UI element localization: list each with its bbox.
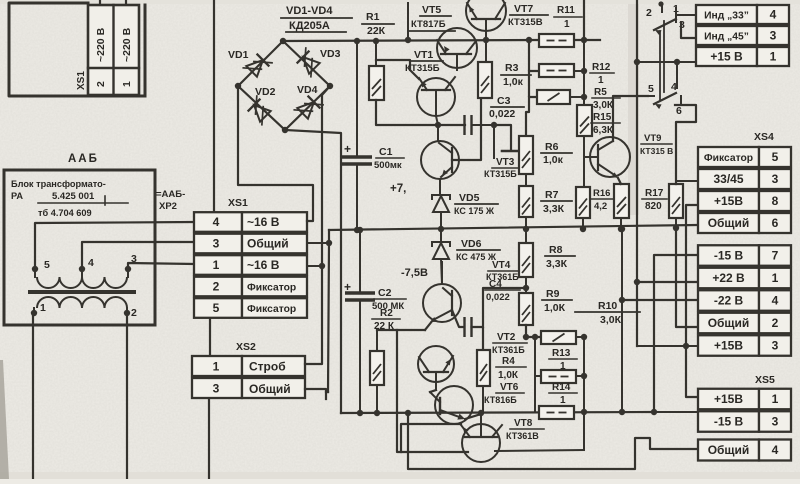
resistor R11 (in rail) bbox=[539, 34, 574, 47]
svg-text:3: 3 bbox=[770, 29, 777, 43]
junction v686 bbox=[683, 343, 689, 349]
svg-text:XS1: XS1 bbox=[228, 197, 248, 209]
wire R15 bottom to VT9 base and R16 bbox=[583, 136, 585, 187]
XS1 row 3 Общий bbox=[194, 234, 242, 254]
pin 4 bbox=[81, 269, 83, 277]
svg-text:VD5: VD5 bbox=[459, 192, 480, 204]
wire ladder left vertical bbox=[534, 337, 536, 412]
svg-text:4,2: 4,2 bbox=[594, 201, 607, 212]
zener VD5 KS175Zh bbox=[432, 195, 450, 200]
junction VT5 emitter bbox=[483, 37, 489, 43]
resistor R14b in rail bbox=[539, 406, 574, 419]
svg-text:VD6: VD6 bbox=[461, 238, 482, 250]
svg-text:Общий: Общий bbox=[247, 237, 289, 251]
svg-text:-15 В: -15 В bbox=[714, 415, 744, 429]
resistor R17b (right of R16) bbox=[614, 184, 629, 218]
pin 3 bbox=[127, 269, 129, 277]
svg-text:=ААБ-: =ААБ- bbox=[156, 189, 185, 200]
wire left branch to R5h bbox=[529, 71, 537, 97]
svg-text:R10: R10 bbox=[598, 300, 617, 312]
minus rail -7.5V bbox=[341, 412, 654, 413]
svg-text:R3: R3 bbox=[505, 62, 519, 74]
zener VD6 KS475Zh bbox=[440, 229, 442, 241]
svg-text:3,0К: 3,0К bbox=[600, 314, 622, 326]
junction R4/VT6/VT8 node bbox=[478, 410, 484, 416]
mains input box bbox=[9, 3, 145, 96]
svg-text:тб 4.704 609: тб 4.704 609 bbox=[38, 208, 92, 218]
wire pin1 down bbox=[32, 313, 34, 479]
svg-text:4: 4 bbox=[772, 443, 779, 457]
wire R5h left down to R6 bbox=[526, 97, 529, 136]
row +15 В 1 bbox=[696, 47, 757, 66]
svg-text:R17: R17 bbox=[645, 188, 664, 199]
svg-text:1,0К: 1,0К bbox=[498, 370, 519, 381]
svg-text:XS2: XS2 bbox=[236, 341, 256, 353]
svg-text:22К: 22К bbox=[367, 25, 386, 37]
svg-text:4: 4 bbox=[88, 257, 94, 269]
resistor R7 bbox=[519, 186, 533, 217]
svg-text:+15В: +15В bbox=[714, 194, 743, 208]
wire left branch R12/R5 bbox=[529, 40, 539, 71]
resistor R9 bbox=[519, 293, 533, 325]
wire +15V vertical bbox=[636, 0, 638, 346]
wire ground vertical down to XS2 bbox=[328, 243, 329, 392]
wire R17b bottom bbox=[620, 218, 622, 229]
row +15В 3 bbox=[698, 335, 759, 356]
wire R8 to R9 bbox=[525, 277, 527, 293]
svg-text:Инд „33”: Инд „33” bbox=[704, 11, 749, 22]
wire R17 bottom to common rail bbox=[675, 218, 677, 228]
svg-text:+15В: +15В bbox=[714, 392, 743, 406]
svg-text:КТ315В: КТ315В bbox=[508, 17, 543, 28]
transistor VT9 bbox=[590, 137, 630, 177]
svg-text:1: 1 bbox=[770, 50, 777, 64]
diode VD1 bbox=[242, 50, 272, 80]
svg-text:3,0К: 3,0К bbox=[593, 100, 614, 111]
svg-text:VD1: VD1 bbox=[228, 49, 249, 61]
svg-text:R4: R4 bbox=[502, 356, 515, 367]
transistor VT6 bbox=[435, 386, 473, 424]
svg-text:Фиксатор: Фиксатор bbox=[247, 304, 296, 315]
transformer T1 primary winding bbox=[37, 277, 60, 288]
row +15В 8 bbox=[698, 191, 759, 211]
svg-text:1: 1 bbox=[560, 395, 566, 406]
svg-text:2: 2 bbox=[213, 280, 220, 294]
svg-text:КС 475 Ж: КС 475 Ж bbox=[456, 252, 497, 262]
svg-text:VD4: VD4 bbox=[297, 84, 318, 96]
svg-text:VT8: VT8 bbox=[514, 418, 533, 429]
XS2 row 1 Strob bbox=[192, 356, 242, 376]
capacitor C1 500mk bbox=[356, 41, 358, 157]
contact link wires bbox=[659, 31, 661, 100]
wire common to XS4 Obschij2 row bbox=[676, 228, 698, 327]
svg-text:1: 1 bbox=[598, 75, 604, 86]
wire contact6 to R17 bbox=[675, 105, 696, 184]
svg-text:1,0к: 1,0к bbox=[543, 154, 564, 166]
resistor R4 bbox=[477, 350, 490, 386]
svg-text:4: 4 bbox=[772, 294, 779, 308]
svg-text:VD1-VD4: VD1-VD4 bbox=[286, 5, 333, 17]
svg-text:1: 1 bbox=[40, 302, 46, 314]
svg-text:8: 8 bbox=[772, 194, 779, 208]
svg-text:2: 2 bbox=[131, 307, 137, 319]
svg-text:820: 820 bbox=[645, 201, 662, 212]
wire R9 bottom to R13 bbox=[526, 325, 541, 337]
wire R17 to 33/45 row bbox=[676, 180, 698, 182]
wire XS2 ground joins ground bus bbox=[305, 389, 326, 399]
pin 1 bbox=[33, 308, 35, 313]
pin 2 bbox=[126, 308, 128, 313]
svg-text:РА: РА bbox=[11, 191, 23, 201]
wire -22V row bbox=[622, 299, 698, 301]
wire R14 right bbox=[576, 375, 584, 377]
junction R1 top bbox=[373, 38, 379, 44]
svg-text:~16 В: ~16 В bbox=[247, 258, 280, 272]
svg-text:ХР2: ХР2 bbox=[159, 201, 177, 212]
svg-text:1: 1 bbox=[213, 360, 220, 374]
svg-text:R14: R14 bbox=[552, 382, 571, 393]
junction v584 bottom bbox=[581, 409, 587, 415]
wire C4 node up to R8/R9 junction bbox=[483, 288, 526, 327]
junction C2 top bbox=[357, 227, 363, 233]
capacitor C4 body bbox=[463, 317, 465, 337]
wire R6 to R7 bbox=[525, 174, 527, 186]
svg-text:R13: R13 bbox=[552, 348, 571, 359]
transistor VT4 bbox=[423, 284, 461, 322]
wire +7V rail bbox=[283, 40, 539, 41]
svg-text:R7: R7 bbox=[545, 189, 559, 201]
row Фиксатор 5 bbox=[698, 147, 759, 167]
svg-text:R16: R16 bbox=[593, 188, 610, 199]
XS1 row 5 Фиксатор bbox=[194, 298, 242, 318]
junction C2 bottom bbox=[357, 410, 363, 416]
capacitor C3 0.022 bbox=[463, 115, 465, 135]
bridge frame bbox=[238, 41, 330, 130]
svg-text:Строб: Строб bbox=[249, 360, 286, 374]
svg-text:VD2: VD2 bbox=[255, 86, 276, 98]
svg-text:5: 5 bbox=[648, 83, 654, 95]
svg-text:1,0к: 1,0к bbox=[503, 76, 524, 88]
transistor VT (driver) near +7 bbox=[421, 141, 459, 179]
node bridge left bbox=[235, 83, 241, 89]
svg-text:КД205А: КД205А bbox=[289, 20, 330, 32]
wire R1 bottom to coupling line bbox=[376, 100, 465, 125]
svg-text:2: 2 bbox=[646, 7, 652, 19]
wire R2 top to VT4 emitter bbox=[377, 329, 425, 331]
svg-text:3: 3 bbox=[772, 339, 779, 353]
junction C1 bottom bbox=[354, 227, 360, 233]
diode VD4 bbox=[293, 92, 323, 122]
svg-text:Блок трансформато-: Блок трансформато- bbox=[11, 179, 106, 189]
svg-text:4: 4 bbox=[770, 8, 777, 22]
transistor VT1 bbox=[417, 78, 455, 116]
wire +15V8 row to v686 bbox=[686, 205, 698, 397]
resistor R12 bbox=[539, 64, 574, 77]
row 33/45 3 bbox=[698, 169, 759, 189]
resistor R15 bbox=[577, 105, 592, 136]
svg-text:3: 3 bbox=[772, 415, 779, 429]
svg-text:С2: С2 bbox=[378, 287, 392, 299]
svg-text:+22 В: +22 В bbox=[712, 271, 745, 285]
svg-text:3: 3 bbox=[772, 172, 779, 186]
wire +15V to Ind row bbox=[637, 61, 696, 63]
transformer T1 secondary winding bbox=[37, 297, 60, 308]
wire contact5 to VT9 bbox=[648, 95, 654, 97]
junction R5 right bbox=[581, 94, 587, 100]
resistor R6 bbox=[519, 136, 533, 174]
svg-text:КТ315Б: КТ315Б bbox=[484, 169, 517, 179]
row Общий 4 bbox=[698, 440, 759, 461]
svg-text:XS4: XS4 bbox=[754, 131, 774, 143]
resistor R3 bbox=[485, 40, 487, 62]
diode VD2 bbox=[244, 95, 274, 125]
row Общий 2 bbox=[698, 313, 759, 334]
svg-text:2: 2 bbox=[772, 316, 779, 330]
junction rail to -15V bbox=[651, 409, 657, 415]
wire mains N bbox=[125, 0, 127, 6]
svg-text:+: + bbox=[344, 142, 351, 156]
wire pin5 to XS1-4 bbox=[35, 222, 194, 269]
transistor VT7 bbox=[437, 28, 477, 68]
junction v622 bottom bbox=[619, 409, 625, 415]
svg-text:КТ315Б: КТ315Б bbox=[405, 63, 440, 74]
XS1 row 1 ~16 В bbox=[194, 255, 242, 275]
wire v397 down bbox=[397, 330, 468, 452]
wire pin4 to XS1-3 bbox=[82, 242, 194, 269]
wire XS2-3 ground down bbox=[208, 399, 210, 479]
wire R1 tap to VT1 base bbox=[376, 60, 419, 79]
row -15 В 3 bbox=[698, 411, 759, 432]
svg-text:5: 5 bbox=[772, 150, 779, 164]
svg-text:1: 1 bbox=[772, 271, 779, 285]
svg-text:1: 1 bbox=[564, 19, 570, 30]
junction v408 bbox=[405, 410, 411, 416]
svg-text:~220 В: ~220 В bbox=[95, 27, 107, 62]
svg-text:VT7: VT7 bbox=[514, 3, 533, 15]
node bridge right bbox=[327, 83, 333, 89]
resistor R17 bbox=[669, 184, 683, 218]
svg-text:Фиксатор: Фиксатор bbox=[704, 153, 753, 164]
svg-text:4: 4 bbox=[213, 215, 220, 229]
wire mains L bbox=[99, 0, 101, 6]
wire R7 bottom to common rail bbox=[525, 217, 527, 229]
svg-text:R9: R9 bbox=[546, 288, 560, 300]
svg-text:0,022: 0,022 bbox=[489, 108, 515, 120]
svg-text:VT1: VT1 bbox=[414, 49, 433, 61]
junction VD5 common bbox=[438, 226, 444, 232]
capacitor C2 500mk bbox=[359, 230, 361, 293]
row -22 В 4 bbox=[698, 290, 759, 311]
XS1 row 4 ~16 В bbox=[194, 212, 242, 232]
svg-text:КТ315 В: КТ315 В bbox=[640, 146, 673, 156]
row Инд „33” 4 bbox=[696, 5, 757, 24]
svg-text:0,022: 0,022 bbox=[486, 292, 510, 303]
svg-text:3,3К: 3,3К bbox=[543, 203, 565, 215]
svg-text:1,0К: 1,0К bbox=[544, 302, 566, 314]
wire R11 right to v584 bbox=[574, 39, 584, 41]
wire bridge right node to XS1 row1 and Strob bbox=[305, 86, 330, 364]
svg-text:VT4: VT4 bbox=[492, 260, 511, 271]
junction C3 right bbox=[491, 122, 497, 128]
scan background shading bbox=[628, 0, 639, 215]
wire pin2 down bbox=[126, 313, 128, 479]
svg-text:R6: R6 bbox=[545, 141, 559, 153]
svg-text:КТ816Б: КТ816Б bbox=[484, 395, 517, 405]
svg-text:Фиксатор: Фиксатор bbox=[247, 283, 296, 294]
svg-text:R15: R15 bbox=[593, 112, 612, 123]
svg-text:VD3: VD3 bbox=[320, 48, 341, 60]
svg-text:R8: R8 bbox=[549, 244, 563, 256]
junction R12 right bbox=[581, 68, 587, 74]
resistor R14 bbox=[541, 370, 576, 383]
wire v622 bbox=[621, 229, 623, 412]
svg-text:-7,5В: -7,5В bbox=[401, 267, 428, 279]
wire bridge bottom to minus rail bbox=[285, 130, 341, 413]
svg-text:6,3К: 6,3К bbox=[593, 125, 614, 136]
svg-text:1: 1 bbox=[213, 258, 220, 272]
svg-text:Общий: Общий bbox=[249, 382, 291, 396]
svg-text:33/45: 33/45 bbox=[713, 172, 743, 186]
transistor VT8 bbox=[462, 424, 500, 462]
svg-text:R1: R1 bbox=[366, 11, 380, 23]
connector XS1 (mains) table bbox=[88, 5, 139, 95]
svg-text:3: 3 bbox=[213, 382, 220, 396]
wire +15V3 row bbox=[637, 345, 698, 347]
transistor VT5 bbox=[466, 0, 506, 31]
wire long vertical from top edge to XS1 bbox=[213, 0, 215, 211]
wire lower return bbox=[408, 413, 698, 469]
svg-text:1: 1 bbox=[121, 81, 133, 87]
svg-text:КТ361В: КТ361В bbox=[506, 431, 539, 441]
wire R16 bottom bbox=[582, 218, 584, 229]
svg-text:2: 2 bbox=[95, 81, 107, 87]
resistor R1 bbox=[375, 41, 377, 66]
diode VD3 bbox=[293, 47, 323, 77]
wire -15V7 row bbox=[654, 255, 698, 412]
svg-text:1: 1 bbox=[772, 392, 779, 406]
svg-text:6: 6 bbox=[772, 216, 779, 230]
row -15 В 7 bbox=[698, 245, 759, 266]
svg-text:Общий: Общий bbox=[708, 316, 750, 330]
svg-text:VT5: VT5 bbox=[422, 4, 441, 16]
junction R2 bottom bbox=[374, 410, 380, 416]
wire v584 lower bbox=[583, 337, 585, 412]
row Инд „45” 3 bbox=[696, 26, 757, 45]
wire XS1 to XS2 bbox=[209, 319, 211, 355]
common rail (obschij) bbox=[329, 225, 696, 230]
transformer block box bbox=[4, 170, 155, 325]
svg-text:VT9: VT9 bbox=[644, 133, 661, 144]
svg-text:~220 В: ~220 В bbox=[121, 27, 133, 62]
resistor R8 bbox=[525, 229, 527, 243]
svg-text:+7,: +7, bbox=[390, 183, 406, 195]
svg-text:R2: R2 bbox=[380, 308, 393, 319]
svg-text:XS1: XS1 bbox=[76, 71, 87, 90]
svg-text:VT3: VT3 bbox=[496, 157, 515, 168]
junction row1 tap bbox=[319, 263, 325, 269]
svg-text:-15 В: -15 В bbox=[714, 249, 744, 263]
wire bridge left node to XS1 row4 bbox=[238, 86, 313, 221]
svg-text:3,3К: 3,3К bbox=[546, 258, 568, 270]
junction C1 top bbox=[354, 38, 360, 44]
svg-text:С3: С3 bbox=[497, 95, 511, 107]
svg-text:С1: С1 bbox=[379, 146, 393, 158]
resistor R5 (horizontal) bbox=[537, 90, 570, 104]
XS1 row 2 Фиксатор bbox=[194, 277, 242, 297]
svg-text:+15 В: +15 В bbox=[710, 50, 743, 64]
svg-text:-22 В: -22 В bbox=[714, 294, 744, 308]
svg-text:Общий: Общий bbox=[708, 216, 750, 230]
svg-text:R11: R11 bbox=[557, 5, 575, 16]
svg-text:500мк: 500мк bbox=[374, 160, 402, 171]
svg-text:R5: R5 bbox=[594, 87, 607, 98]
pin 5 bbox=[34, 269, 36, 277]
wire contact1 to Ind33 bbox=[676, 14, 696, 16]
node bridge bottom bbox=[282, 127, 288, 133]
svg-text:5: 5 bbox=[213, 301, 220, 315]
svg-text:ААБ: ААБ bbox=[68, 153, 99, 165]
wire VT8 emitter to return bbox=[495, 450, 584, 451]
wire v584 to top edge bbox=[583, 0, 585, 40]
svg-text:7: 7 bbox=[772, 249, 779, 263]
resistor R2 bbox=[376, 330, 378, 351]
svg-text:+15В: +15В bbox=[714, 339, 743, 353]
wire +22V row bbox=[637, 281, 698, 283]
row +15В 1 bbox=[698, 389, 759, 410]
wire pin3 to XS1-1 bbox=[128, 263, 194, 269]
XS2 row 3 Obschij bbox=[192, 378, 242, 398]
wire VT8 collector bbox=[401, 424, 461, 452]
junction R11 branch bbox=[526, 37, 532, 43]
svg-text:Общий: Общий bbox=[708, 443, 750, 457]
wire VD6 to VT4 bbox=[441, 259, 442, 284]
row Общий 6 bbox=[698, 213, 759, 233]
resistor R16 bbox=[576, 187, 590, 218]
transistor VT2 bbox=[418, 346, 454, 382]
wire to VT3 base bbox=[494, 125, 511, 149]
wire XS5 -15V row bbox=[654, 411, 698, 413]
wire v584 bbox=[583, 40, 585, 105]
svg-text:XS5: XS5 bbox=[755, 374, 775, 386]
wire base to R3 bottom bbox=[452, 98, 481, 160]
node bridge top bbox=[280, 38, 286, 44]
wire R13 right bbox=[576, 336, 584, 338]
row +22 В 1 bbox=[698, 268, 759, 289]
svg-text:R12: R12 bbox=[592, 62, 611, 73]
junction ground vert bbox=[326, 240, 332, 246]
transformer core bbox=[30, 290, 134, 294]
svg-text:5.425 001: 5.425 001 bbox=[52, 191, 95, 202]
svg-text:Инд „45”: Инд „45” bbox=[704, 32, 749, 43]
svg-text:6: 6 bbox=[676, 105, 682, 117]
resistor R13 bbox=[541, 331, 576, 344]
wire VT4 base to C4 cap bbox=[452, 310, 464, 327]
transistor VT3 (base bar) bbox=[502, 150, 518, 153]
svg-text:КТ817Б: КТ817Б bbox=[411, 19, 446, 30]
svg-text:5: 5 bbox=[44, 259, 50, 271]
svg-text:КТ361Б: КТ361Б bbox=[492, 345, 525, 355]
svg-text:VT6: VT6 bbox=[500, 382, 519, 393]
junction VT1 emitter node bbox=[435, 122, 441, 128]
svg-text:VT2: VT2 bbox=[497, 332, 516, 343]
svg-text:~16 В: ~16 В bbox=[247, 215, 280, 229]
svg-text:3: 3 bbox=[213, 237, 220, 251]
wire C4 to R4 node bbox=[472, 327, 484, 350]
svg-text:КС 175 Ж: КС 175 Ж bbox=[454, 206, 495, 216]
